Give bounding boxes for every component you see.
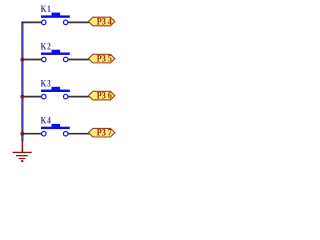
push button K4: [41, 124, 70, 136]
junction row2: [20, 58, 24, 62]
wire vertical bus: [21, 22, 23, 142]
wire row1 right: [68, 21, 89, 23]
ground: [13, 141, 32, 163]
svg-text:P3 4: P3 4: [97, 16, 113, 27]
svg-text:K1: K1: [41, 3, 52, 14]
terminal P3 6: [88, 90, 115, 101]
junction row4: [20, 132, 24, 136]
terminal P3 4: [88, 16, 115, 27]
svg-text:P3 5: P3 5: [97, 53, 113, 64]
junction row3: [20, 95, 24, 99]
wire row4 right: [68, 133, 89, 135]
wire row3 left: [21, 96, 41, 98]
wire row2 left: [21, 59, 41, 61]
svg-text:K2: K2: [41, 40, 52, 51]
terminal P3 5: [88, 53, 115, 64]
wire row2 right: [68, 59, 89, 61]
push button K3: [41, 87, 70, 99]
svg-text:P3 7: P3 7: [97, 127, 113, 138]
wire row4 left: [21, 133, 41, 135]
wire row1 left: [21, 21, 41, 23]
svg-text:K3: K3: [41, 77, 52, 88]
wire row3 right: [68, 96, 89, 98]
svg-text:K4: K4: [41, 115, 52, 126]
terminal P3 7: [88, 127, 115, 138]
svg-text:P3 6: P3 6: [97, 90, 113, 101]
push button K2: [41, 50, 70, 62]
push button K1: [41, 13, 70, 25]
